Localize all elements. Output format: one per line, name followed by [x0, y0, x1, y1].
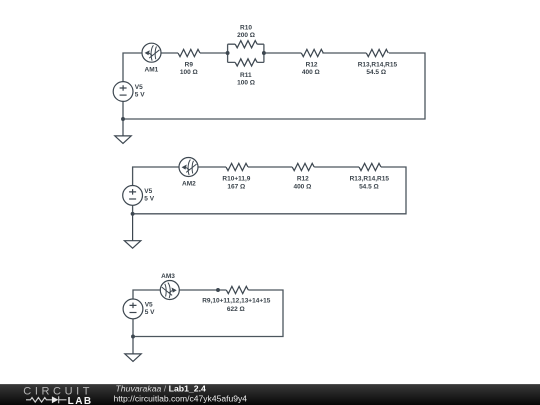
svg-text:R10: R10 [240, 25, 252, 32]
svg-text:R9,10+11,12,13+14+15: R9,10+11,12,13+14+15 [202, 298, 271, 305]
ground (top circuit) [115, 119, 131, 143]
svg-text:AM3: AM3 [161, 273, 175, 280]
wire: parallel right riser [263, 44, 265, 62]
svg-text:R11: R11 [240, 72, 252, 79]
wire: AM2 right lead to R10+11,9 left lead [198, 166, 226, 168]
svg-text:54.5 Ω: 54.5 Ω [366, 69, 386, 76]
svg-text:V5: V5 [144, 188, 152, 195]
svg-text:5 V: 5 V [135, 92, 145, 99]
resistor R13,R14,R15 (middle) [359, 163, 381, 170]
ground (middle circuit) [124, 214, 140, 248]
svg-text:R12: R12 [297, 176, 309, 183]
wire: top branch leads of R10 [228, 43, 264, 45]
wire: AM3 right lead to junction and resistor left lead [179, 289, 226, 291]
svg-text:5 V: 5 V [145, 309, 155, 316]
wire: V5 bottom to junction [132, 205, 134, 214]
logo glyph: wire with resistor and diode [26, 396, 67, 403]
svg-text:Thuvarakaa / Lab1_2.4: Thuvarakaa / Lab1_2.4 [116, 383, 206, 393]
junction node B (right of parallel pair) [262, 51, 266, 55]
resistor R13,R14,R15 [366, 49, 388, 56]
junction: bottom node of bottom circuit [131, 335, 135, 339]
svg-text:622 Ω: 622 Ω [227, 306, 245, 313]
wire: right edge and bottom return [133, 167, 406, 214]
svg-text:R10+11,9: R10+11,9 [222, 176, 250, 183]
ammeter AM2 [179, 158, 198, 177]
svg-text:R9: R9 [185, 61, 194, 68]
wire: V5 top up to corner and right to AM2 left lead [133, 167, 179, 186]
svg-text:http://circuitlab.com/c47yk45a: http://circuitlab.com/c47yk45afu9y4 [114, 393, 248, 403]
ammeter AM3 (mirrored) [160, 281, 179, 300]
wire: V5 bottom to ground junction [122, 101, 124, 119]
resistor R12 (middle) [292, 163, 314, 170]
svg-text:400 Ω: 400 Ω [293, 183, 311, 190]
junction: bottom node of top circuit [121, 117, 125, 121]
svg-text:400 Ω: 400 Ω [302, 69, 320, 76]
wire: R10+11,9 right to R12 left [248, 166, 292, 168]
wire: AM1 right lead to R9 left lead [161, 52, 178, 54]
svg-text:200 Ω: 200 Ω [237, 32, 255, 39]
svg-text:V5: V5 [145, 302, 153, 309]
svg-text:R13,R14,R15: R13,R14,R15 [350, 176, 390, 183]
svg-text:R12: R12 [306, 61, 318, 68]
svg-text:100 Ω: 100 Ω [180, 69, 198, 76]
svg-text:54.5 Ω: 54.5 Ω [359, 183, 379, 190]
voltage source V5 (middle circuit) [123, 186, 143, 206]
resistor R9,10+11,12,13+14+15 [226, 286, 248, 293]
svg-text:LAB: LAB [68, 396, 93, 405]
wire: R12 right to R13,R14,R15 left [314, 166, 359, 168]
ammeter AM1 [142, 43, 161, 62]
svg-text:R13,R14,R15: R13,R14,R15 [358, 61, 398, 68]
resistor R9 [178, 49, 200, 56]
wire: parallel left riser [227, 44, 229, 62]
resistor R10+11,9 [226, 163, 248, 170]
resistor R10 (top branch) [235, 41, 257, 48]
voltage source V5 (bottom circuit) [123, 299, 143, 319]
svg-text:100 Ω: 100 Ω [237, 79, 255, 86]
junction node A (left of parallel pair) [226, 51, 230, 55]
wire: R12 right lead to R13,R14,R15 left lead [322, 52, 366, 54]
svg-text:AM1: AM1 [145, 67, 159, 74]
wire: R9 right lead to parallel node A [200, 52, 228, 54]
voltage source V5 (top circuit) [113, 82, 133, 102]
junction node before resistor [216, 288, 220, 292]
wire: V5 top up to corner and right to AM3 left lead [133, 290, 160, 299]
ground (bottom circuit) [125, 337, 141, 362]
svg-text:167 Ω: 167 Ω [227, 183, 245, 190]
wire: parallel node B to R12 left lead [264, 52, 301, 54]
wire: resistor right lead, right edge, bottom return [133, 290, 283, 337]
svg-text:V5: V5 [135, 84, 143, 91]
wire: R13,R14,R15 right lead, right edge and bottom return [123, 53, 425, 119]
junction: bottom node of middle circuit [131, 212, 135, 216]
wire: bottom branch leads of R11 [228, 61, 264, 63]
resistor R12 [301, 49, 323, 56]
wire: V5 bottom to junction [132, 319, 134, 337]
resistor R11 (bottom branch) [235, 59, 257, 66]
svg-text:5 V: 5 V [144, 196, 154, 203]
logo diode triangle [52, 396, 59, 403]
wire: V5 top to top-left corner up to AM1 left lead [123, 53, 142, 82]
svg-text:AM2: AM2 [182, 180, 196, 187]
